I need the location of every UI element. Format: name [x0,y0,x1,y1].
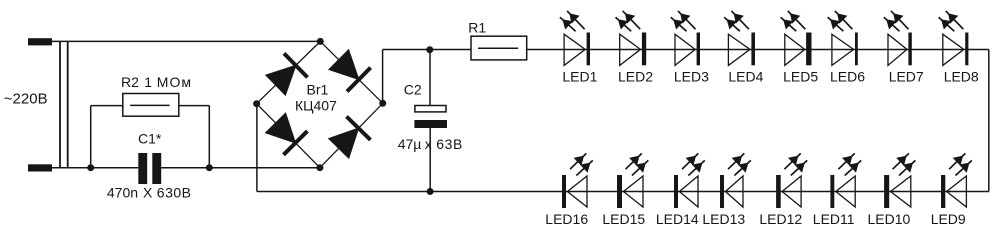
led LED16 [562,153,593,208]
diode bridge top-right [328,49,371,92]
svg-text:LED5: LED5 [783,69,818,85]
svg-text:КЦ407: КЦ407 [295,98,337,114]
led LED3 [671,11,700,66]
led LED9 [941,153,972,208]
node C2 top junction [426,46,433,53]
led LED7 [884,11,912,66]
label LED3 [674,69,709,85]
wire vertical link 1 [59,41,61,167]
svg-text:R1: R1 [468,19,486,35]
wire bottom AC left segment [52,167,138,169]
node junction left of C1 [87,164,94,171]
wire R2 left lead [91,106,123,168]
led LED13 [720,153,751,208]
label C2 [404,81,422,97]
svg-text:47µ: 47µ [398,136,422,152]
wire C2 bottom lead [429,128,431,192]
svg-text:LED11: LED11 [813,211,855,227]
capacitor C1 [138,153,161,184]
label LED10 [868,211,911,227]
svg-text:LED16: LED16 [545,211,588,227]
terminal input bottom [28,164,52,171]
led LED11 [830,153,861,208]
label C1 value [107,184,192,200]
wire bridge edge L-T [257,41,321,103]
node C2 bottom junction [427,188,434,195]
wire R2 right lead [179,106,210,168]
wire bridge edge T-R [320,41,383,103]
label LED2 [618,69,653,85]
led LED5 [781,11,812,66]
svg-text:C2: C2 [404,81,422,97]
label LED8 [944,69,979,85]
svg-text:470n: 470n [107,184,138,200]
svg-text:LED8: LED8 [944,69,979,85]
wire DC minus rail [257,191,989,193]
node bridge DC minus left [253,100,260,107]
label LED1 [562,69,597,85]
led LED10 [884,153,915,208]
led LED1 [560,11,590,66]
led LED4 [724,11,755,66]
label LED14 [656,211,699,227]
svg-text:LED9: LED9 [931,211,966,227]
svg-text:1: 1 [144,74,152,90]
resistor R1 [471,36,527,60]
label LED6 [830,69,865,85]
label LED4 [728,69,763,85]
label LED15 [602,211,645,227]
wire C2 top lead [429,50,431,106]
label Br1 [307,81,329,97]
wire top AC rail [52,40,320,42]
label Br1 value [295,98,337,114]
svg-text:LED12: LED12 [759,211,802,227]
led LED2 [616,11,647,66]
svg-text:LED6: LED6 [830,69,865,85]
label LED12 [759,211,802,227]
label LED16 [545,211,588,227]
node bridge AC bottom [316,164,323,171]
node bridge AC top [317,38,324,45]
wire right edge [988,50,990,192]
diode bridge bottom-left [265,112,308,155]
label R1 [468,19,486,35]
label LED9 [931,211,966,227]
wire bridge edge B-R [320,103,383,167]
svg-text:C1*: C1* [138,130,162,146]
label LED7 [889,69,924,85]
label R2 value [121,74,192,90]
terminal input top [28,38,52,45]
svg-text:R2: R2 [121,74,139,90]
led LED14 [674,153,705,208]
led LED12 [776,153,807,208]
svg-text:LED7: LED7 [889,69,924,85]
capacitor C2 plus plate [415,106,446,112]
label C1 [138,130,162,146]
wire bridge edge L-B [257,104,320,168]
svg-text:630В: 630В [157,184,192,200]
node bridge DC plus right [379,100,386,107]
label LED13 [702,211,745,227]
svg-text:LED10: LED10 [868,211,911,227]
led LED6 [828,11,858,66]
label C2 value [398,136,463,152]
led LED15 [617,153,648,208]
wire DC minus drop [256,104,258,192]
led LED8 [939,11,969,66]
svg-text:LED2: LED2 [618,69,653,85]
svg-text:63В: 63В [436,136,463,152]
diode bridge top-left [265,53,308,96]
diode bridge bottom-right [328,117,371,160]
label LED11 [813,211,855,227]
svg-text:LED4: LED4 [728,69,763,85]
capacitor C2 minus plate [414,120,447,128]
wire DC plus riser [382,50,384,104]
svg-text:LED13: LED13 [702,211,745,227]
node junction right of C1 [206,164,213,171]
svg-text:МОм: МОм [157,74,192,90]
svg-text:LED3: LED3 [674,69,709,85]
wire DC plus rail [383,49,989,51]
label LED5 [783,69,818,85]
svg-text:Br1: Br1 [307,81,329,97]
wire vertical link 2 [67,41,69,167]
svg-text:X: X [143,184,153,200]
svg-text:LED14: LED14 [656,211,699,227]
resistor R2 [123,94,179,117]
svg-text:LED15: LED15 [602,211,645,227]
svg-text:LED1: LED1 [562,69,597,85]
svg-text:x: x [425,136,432,152]
svg-text:~220В: ~220В [4,91,48,108]
label ~220В [4,91,48,108]
wire bottom AC right segment [161,167,320,169]
